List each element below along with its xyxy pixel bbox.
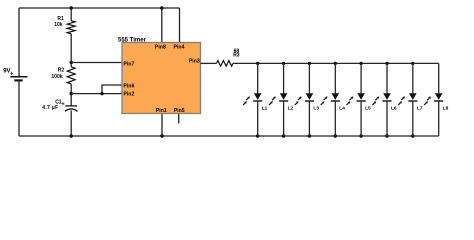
LED L7 [398,63,423,136]
svg-text:L8: L8 [443,105,449,111]
wire left rail (battery branch) [18,8,20,76]
svg-text:L6: L6 [391,105,397,111]
svg-text:10k: 10k [54,22,63,28]
node junction bottom rail / C1 [70,134,73,137]
svg-text:100k: 100k [51,74,62,80]
svg-text:R3: R3 [233,53,240,59]
node junction top rail / pin8 [160,6,163,9]
op-amp U1 555 Timer IC body [122,43,201,114]
svg-text:L7: L7 [417,105,423,111]
LED L8 [424,63,449,136]
wire pin7 [71,62,122,64]
wire R3 to LED rail [233,62,439,64]
node junction LED rail taps (bottom) [256,134,414,137]
svg-text:L4: L4 [339,105,345,111]
LED L5 [347,63,372,136]
battery B1 9V [3,69,27,81]
wire battery minus to bottom rail [18,81,20,136]
svg-text:4.7 µF: 4.7 µF [42,105,58,111]
svg-text:555 Timer: 555 Timer [118,38,147,44]
svg-text:Pin5: Pin5 [174,108,185,114]
svg-text:Pin4: Pin4 [174,44,185,50]
resistor R2 100k [51,67,75,84]
svg-text:Pin6: Pin6 [123,84,134,90]
wire R1 top stub [70,8,72,21]
wire pin2 [71,93,122,95]
svg-text:R1: R1 [57,16,64,22]
wire pin5 stub (unconnected) [178,114,180,124]
node junction pin6/pin2 wire [100,92,103,95]
svg-text:L1: L1 [262,105,268,111]
node junction bottom rail / pin1 [160,134,163,137]
wire pin6 [102,85,122,94]
node junction R2/C1/Pin2 [70,92,73,95]
svg-text:+: + [10,71,14,77]
node junction R1/R2/Pin7 [70,61,73,64]
LED L3 [295,63,320,136]
svg-text:R2: R2 [58,67,65,73]
wire C1 bottom to bottom rail [70,110,72,136]
wire top rail [19,7,180,9]
LED L4 [321,63,346,136]
node junction LED rail taps (top) [256,62,414,65]
svg-text:Pin1: Pin1 [156,108,167,114]
wire pin1 stub [161,114,163,137]
wire pin4 stub [179,8,181,43]
LED L2 [269,63,294,136]
svg-text:L3: L3 [313,105,319,111]
LED L6 [372,63,397,136]
capacitor C1 4.7 uF [42,100,77,112]
LED L1 [243,63,268,136]
svg-text:Pin3: Pin3 [189,59,200,65]
svg-text:+: + [61,102,64,108]
node junction top rail / R1 [70,6,73,9]
svg-text:Pin7: Pin7 [123,62,134,68]
svg-text:L5: L5 [365,105,371,111]
svg-text:Pin2: Pin2 [123,92,134,98]
resistor R3 68 [217,48,240,66]
svg-text:Pin8: Pin8 [155,44,166,50]
resistor R1 10k [54,16,75,34]
wire R1 bottom to pin7 node [70,34,72,67]
wire pin8 stub [161,8,163,43]
wire R2 bottom to C1 [70,84,72,106]
wire pin3 to R3 [201,62,217,64]
wire bottom rail [19,135,439,137]
svg-text:L2: L2 [288,105,294,111]
